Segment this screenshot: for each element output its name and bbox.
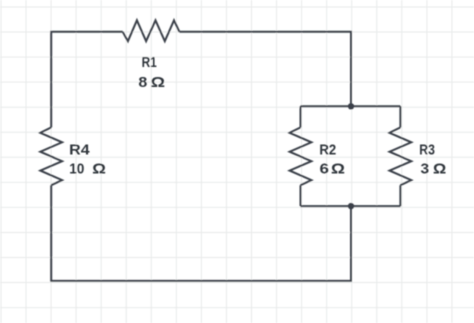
svg-text:10: 10	[69, 161, 84, 178]
svg-text:6: 6	[320, 161, 329, 178]
svg-text:Ω: Ω	[331, 161, 345, 178]
svg-text:R1: R1	[142, 54, 157, 71]
svg-text:Ω: Ω	[151, 74, 165, 91]
svg-text:3: 3	[421, 161, 430, 178]
svg-text:Ω: Ω	[433, 161, 446, 178]
svg-text:R2: R2	[319, 141, 336, 158]
svg-text:R4: R4	[69, 141, 90, 158]
svg-text:Ω: Ω	[92, 161, 106, 178]
svg-text:R3: R3	[419, 141, 435, 158]
svg-text:8: 8	[138, 74, 147, 91]
